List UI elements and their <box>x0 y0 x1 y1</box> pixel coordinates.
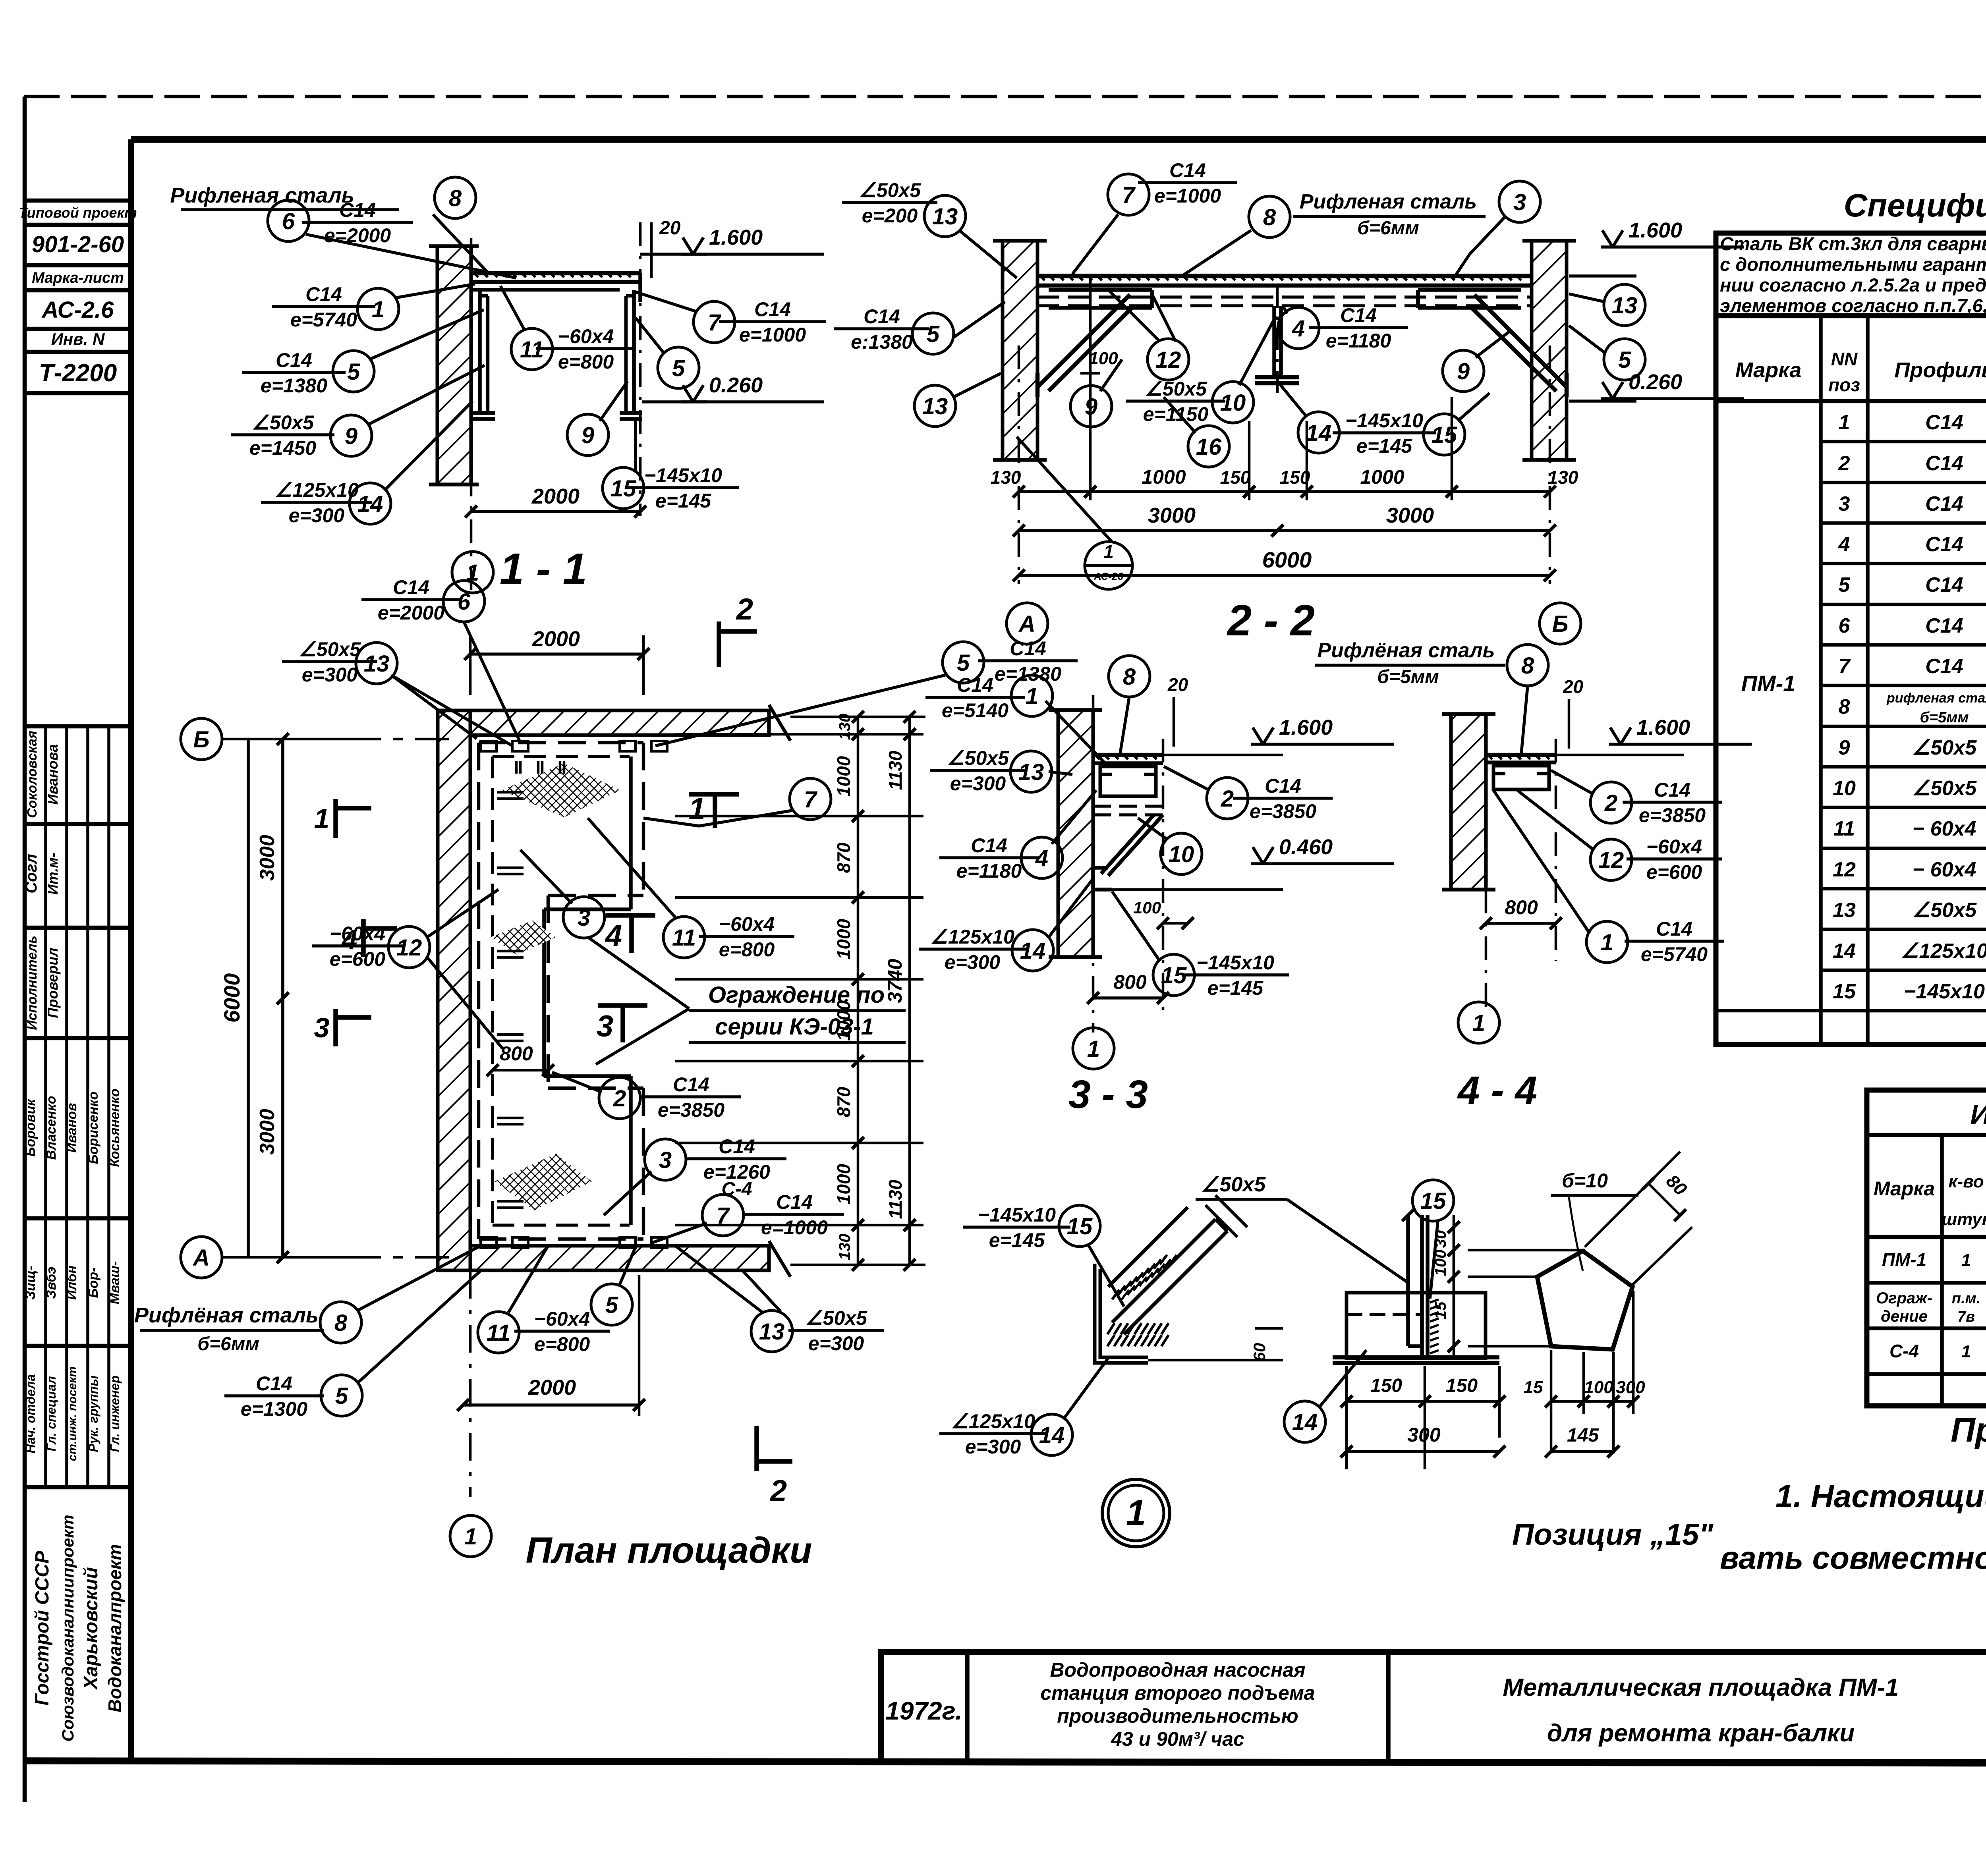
svg-text:1: 1 <box>1103 541 1114 562</box>
svg-text:145: 145 <box>1567 1425 1599 1446</box>
reference circle 1/AC-26 <box>1085 542 1132 589</box>
svg-text:7: 7 <box>1839 655 1851 678</box>
svg-text:300: 300 <box>1616 1378 1645 1397</box>
svg-text:8: 8 <box>1123 664 1136 690</box>
svg-text:−60x4: −60x4 <box>534 1308 590 1330</box>
dims under 2-2 <box>1018 345 1020 584</box>
svg-text:15: 15 <box>1067 1214 1093 1239</box>
svg-text:6: 6 <box>458 589 471 615</box>
svg-text:15: 15 <box>1161 963 1187 988</box>
svg-text:150: 150 <box>1446 1375 1478 1396</box>
svg-text:100: 100 <box>1432 1250 1449 1276</box>
svg-text:800: 800 <box>1505 896 1538 919</box>
svg-text:14: 14 <box>1039 1422 1065 1448</box>
svg-text:e=1450: e=1450 <box>249 437 316 459</box>
inner dashed line near wall <box>491 757 494 1225</box>
svg-text:150: 150 <box>1220 467 1251 488</box>
svg-text:e=3850: e=3850 <box>1639 804 1706 826</box>
svg-text:1000: 1000 <box>833 1164 854 1204</box>
svg-text:11: 11 <box>672 925 696 951</box>
svg-text:5: 5 <box>672 355 685 381</box>
svg-text:13: 13 <box>759 1319 785 1345</box>
svg-text:13: 13 <box>1018 759 1044 785</box>
svg-text:1972г.: 1972г. <box>885 1697 962 1725</box>
svg-text:вать совместно с листом АС-1: вать совместно с листом АС-1 <box>1720 1540 1986 1575</box>
dim 800 4-4 <box>1486 922 1556 925</box>
svg-text:С14: С14 <box>1010 637 1046 660</box>
svg-text:3: 3 <box>578 905 590 931</box>
svg-text:2: 2 <box>736 593 753 626</box>
vertical angle detail <box>1406 1215 1410 1346</box>
svg-text:870: 870 <box>833 842 854 873</box>
svg-text:С14: С14 <box>1340 304 1377 326</box>
svg-text:Исполнитель: Исполнитель <box>25 936 40 1030</box>
svg-text:С14: С14 <box>276 349 312 371</box>
svg-text:8: 8 <box>1263 205 1276 230</box>
svg-text:С14: С14 <box>1654 779 1690 801</box>
plan left wall hatched <box>438 710 470 1270</box>
section mark 2 top <box>717 621 721 667</box>
left wall 2-2 <box>1003 241 1037 460</box>
svg-text:1.600: 1.600 <box>709 226 763 249</box>
center lines 4-4 <box>1485 890 1488 1017</box>
svg-text:15: 15 <box>1833 980 1856 1003</box>
svg-text:e=800: e=800 <box>558 351 614 373</box>
svg-text:С14: С14 <box>305 283 342 305</box>
svg-text:С-4: С-4 <box>721 1179 752 1200</box>
svg-text:e=300: e=300 <box>965 1436 1021 1458</box>
label L125x10 e=300 circle 14 <box>261 501 372 504</box>
svg-text:Металлическая площадка ПМ-1: Металлическая площадка ПМ-1 <box>1503 1674 1899 1701</box>
svg-text:Ограждение по: Ограждение по <box>708 982 885 1008</box>
svg-text:Инв. N: Инв. N <box>51 330 105 348</box>
svg-text:3 - 3: 3 - 3 <box>1068 1072 1148 1117</box>
svg-text:∠50x5: ∠50x5 <box>947 747 1009 769</box>
svg-text:e=300: e=300 <box>808 1332 864 1355</box>
svg-text:Спецификация металла: Спецификация металла <box>1844 187 1986 224</box>
svg-text:100: 100 <box>1133 898 1161 917</box>
circle 7 C14 e=1000 plan bottom <box>702 1195 744 1236</box>
izgotovit table <box>1867 1090 1986 1406</box>
svg-text:производительностью: производительностью <box>1057 1705 1298 1727</box>
label C14 e=1380 circle 5 plan top right <box>943 642 984 683</box>
circle 5 bottom plan <box>591 1284 632 1325</box>
svg-text:14: 14 <box>1292 1409 1318 1435</box>
svg-text:14: 14 <box>357 491 383 517</box>
svg-text:1. Настоящий чертеж рассматри-: 1. Настоящий чертеж рассматри- <box>1775 1478 1986 1514</box>
lower dashed band 3-3 <box>1093 805 1163 808</box>
small channel clips along deck <box>481 741 496 751</box>
svg-text:1 - 1: 1 - 1 <box>500 544 587 593</box>
svg-text:Рук. группы: Рук. группы <box>86 1375 100 1452</box>
section mark 1 upper <box>689 792 739 797</box>
grid line A plan <box>222 1256 449 1259</box>
svg-text:1000: 1000 <box>833 919 854 959</box>
svg-text:п.м.: п.м. <box>1952 1290 1980 1307</box>
svg-text:С14: С14 <box>1265 775 1301 797</box>
section marks left column <box>333 799 338 838</box>
svg-text:1: 1 <box>464 1524 477 1550</box>
svg-text:−60x4: −60x4 <box>719 913 775 935</box>
svg-text:Т-2200: Т-2200 <box>39 359 117 387</box>
svg-text:e=1000: e=1000 <box>761 1216 828 1239</box>
svg-text:13: 13 <box>932 204 958 230</box>
svg-text:Борисенко: Борисенко <box>86 1092 101 1164</box>
svg-text:С14: С14 <box>1925 614 1963 637</box>
designation circle 1 below plan <box>450 1515 491 1557</box>
svg-text:1: 1 <box>1126 1493 1146 1533</box>
section mark 2 bottom <box>754 1426 759 1471</box>
svg-text:Изготовить: Изготовить <box>1970 1099 1986 1130</box>
drawing frame <box>131 136 1986 143</box>
svg-text:Ограж-: Ограж- <box>1876 1289 1932 1307</box>
svg-text:С14: С14 <box>957 674 993 696</box>
svg-text:901-2-60: 901-2-60 <box>32 232 124 257</box>
svg-text:С14: С14 <box>393 576 429 598</box>
svg-text:e=1380: e=1380 <box>261 374 327 397</box>
svg-text:13: 13 <box>922 394 948 419</box>
svg-text:нии согласно л.2.5.2а и предел: нии согласно л.2.5.2а и предельного соде… <box>1720 274 1986 295</box>
right diagonal brace 2-2 <box>1474 295 1567 387</box>
channel under deck right 2-2 <box>1418 288 1521 292</box>
svg-text:б=5мм: б=5мм <box>1920 709 1969 726</box>
svg-text:АС-26: АС-26 <box>1093 570 1123 582</box>
section designation circle 1 bottom <box>452 552 493 593</box>
svg-text:С-4: С-4 <box>1889 1341 1919 1361</box>
grid line B plan <box>222 738 449 741</box>
svg-text:2: 2 <box>769 1474 787 1508</box>
svg-text:9: 9 <box>1457 359 1470 384</box>
svg-text:7: 7 <box>804 787 818 813</box>
svg-text:9: 9 <box>582 423 594 448</box>
svg-text:рифленая сталь: рифленая сталь <box>1886 691 1986 706</box>
circle 3 C14 e=1260 plan <box>645 1139 686 1180</box>
svg-text:13: 13 <box>1612 293 1638 318</box>
dashed center line 1-1 <box>470 238 473 592</box>
svg-text:5: 5 <box>347 359 360 385</box>
channel 4-4 <box>1493 766 1549 789</box>
svg-text:Илбн: Илбн <box>64 1266 79 1300</box>
svg-text:Согл: Согл <box>23 854 40 894</box>
svg-text:1: 1 <box>1839 411 1850 434</box>
svg-text:Проверил: Проверил <box>44 948 61 1018</box>
svg-text:Б: Б <box>1552 611 1568 637</box>
svg-text:станция второго подъема: станция второго подъема <box>1040 1682 1315 1704</box>
dim 800 3-3 <box>1093 996 1163 1000</box>
labels 3-3 right <box>1109 656 1150 697</box>
svg-text:Иванова: Иванова <box>44 744 61 805</box>
svg-text:12: 12 <box>1598 847 1624 873</box>
right channel leg 1-1 <box>632 290 636 413</box>
svg-text:2: 2 <box>1838 452 1850 475</box>
svg-text:e=1300: e=1300 <box>241 1398 307 1420</box>
svg-text:9: 9 <box>1839 736 1850 759</box>
svg-text:ст.инж. посект: ст.инж. посект <box>66 1366 79 1461</box>
svg-text:e=145: e=145 <box>989 1229 1045 1251</box>
labels detail A <box>963 1226 1070 1229</box>
svg-text:5: 5 <box>335 1383 348 1409</box>
svg-text:Профиль: Профиль <box>1894 358 1986 382</box>
solid channel edges plan (top arm) <box>544 907 631 911</box>
dim 60 detail <box>1148 1359 1283 1362</box>
svg-text:16: 16 <box>1196 434 1222 460</box>
svg-text:С14: С14 <box>1925 492 1963 515</box>
svg-text:13: 13 <box>1833 899 1856 922</box>
svg-text:1130: 1130 <box>885 1179 906 1219</box>
svg-text:Марка: Марка <box>1735 358 1802 382</box>
svg-text:800: 800 <box>500 1042 533 1065</box>
deck 3-3 <box>1093 753 1163 757</box>
svg-text:8: 8 <box>334 1310 348 1336</box>
grating mesh patches <box>501 763 620 817</box>
svg-text:2: 2 <box>1604 790 1617 816</box>
svg-text:870: 870 <box>833 1087 854 1117</box>
svg-text:с дополнительными гарантиями з: с дополнительными гарантиями загиба в хо… <box>1720 254 1986 275</box>
svg-text:Ит.м-: Ит.м- <box>44 853 61 895</box>
svg-text:4: 4 <box>1035 845 1048 871</box>
svg-text:−60x4: −60x4 <box>330 923 385 945</box>
svg-text:11: 11 <box>487 1320 510 1346</box>
svg-text:150: 150 <box>1370 1375 1402 1396</box>
svg-text:дение: дение <box>1881 1308 1928 1325</box>
svg-text:3: 3 <box>314 1012 330 1043</box>
svg-text:Сталь ВК ст.3кл для сварных ко: Сталь ВК ст.3кл для сварных конструкций … <box>1720 233 1986 254</box>
svg-text:6000: 6000 <box>1262 547 1312 572</box>
svg-text:1130: 1130 <box>885 751 906 790</box>
svg-text:30: 30 <box>1432 1230 1449 1248</box>
svg-text:20: 20 <box>1563 676 1584 697</box>
svg-text:43 и 90м³/ час: 43 и 90м³/ час <box>1111 1728 1244 1750</box>
svg-text:4: 4 <box>605 919 622 953</box>
svg-text:С14: С14 <box>256 1372 292 1395</box>
svg-text:7: 7 <box>1122 182 1136 208</box>
circle 5 right leg <box>658 347 699 388</box>
svg-text:100: 100 <box>1584 1378 1613 1397</box>
svg-text:e=1000: e=1000 <box>1154 185 1221 207</box>
bottom dims pentagon 15 100 300 145 <box>1550 1350 1553 1453</box>
label L50x5 e=1450 circle 9 <box>231 433 334 436</box>
svg-text:А: А <box>192 1245 210 1271</box>
svg-text:∠50x5: ∠50x5 <box>859 179 921 201</box>
svg-text:1: 1 <box>1961 1251 1971 1270</box>
svg-text:4: 4 <box>1838 533 1850 556</box>
svg-text:∠125x10: ∠125x10 <box>274 479 359 501</box>
left diagonal brace 2-2 <box>1037 295 1130 387</box>
svg-text:∠50x5: ∠50x5 <box>1201 1173 1266 1196</box>
dim 2000 below 1-1 <box>471 510 640 513</box>
svg-text:10: 10 <box>1169 841 1194 867</box>
svg-text:для ремонта кран-балки: для ремонта кран-балки <box>1547 1720 1855 1747</box>
svg-text:e=300: e=300 <box>945 951 1001 973</box>
svg-text:1: 1 <box>1601 930 1613 955</box>
svg-text:Б: Б <box>193 727 209 753</box>
svg-text:6: 6 <box>282 208 295 234</box>
plan center line vertical <box>469 1271 472 1497</box>
channel under deck left 2-2 <box>1049 288 1152 292</box>
svg-text:130: 130 <box>836 714 854 740</box>
svg-text:С14: С14 <box>673 1073 709 1096</box>
title block <box>881 1652 1986 1762</box>
section mark 4 mid <box>606 913 655 918</box>
svg-text:Звбэ: Звбэ <box>44 1267 59 1299</box>
svg-text:−60x4: −60x4 <box>558 325 614 347</box>
svg-text:−145x10: −145x10 <box>1904 980 1985 1003</box>
svg-text:8: 8 <box>1839 695 1850 718</box>
label C14 e=1000 circle 7 right <box>694 301 735 343</box>
svg-text:Позиция „15": Позиция „15" <box>1512 1518 1714 1552</box>
svg-text:e=300: e=300 <box>302 664 358 686</box>
svg-text:С14: С14 <box>339 199 376 221</box>
svg-text:С14: С14 <box>754 298 791 320</box>
label 13 L50x5 e=300 bottom plan <box>751 1310 792 1352</box>
detail: base plate with angle pos14/15 <box>1347 1293 1486 1358</box>
wall 3-3 hatched <box>1058 710 1093 957</box>
label C14 e=2000 circle 6 <box>268 200 309 241</box>
grid bubble B 2-2 <box>1540 603 1581 644</box>
svg-text:e=300: e=300 <box>950 772 1006 795</box>
channel section 3-3 (C profile) <box>1100 766 1156 796</box>
svg-text:1: 1 <box>1472 1010 1485 1036</box>
svg-text:∠50x5: ∠50x5 <box>805 1307 867 1329</box>
svg-text:серии КЭ-03-1: серии КЭ-03-1 <box>715 1014 874 1040</box>
svg-text:1000: 1000 <box>833 756 854 797</box>
svg-text:13: 13 <box>364 651 390 677</box>
middle post 2-2 <box>1272 306 1276 377</box>
svg-text:С14: С14 <box>1925 411 1963 434</box>
svg-text:Водоканалпроект: Водоканалпроект <box>104 1544 125 1712</box>
svg-text:1000: 1000 <box>1360 466 1404 488</box>
svg-text:1: 1 <box>1026 683 1038 709</box>
svg-text:к-во: к-во <box>1948 1172 1984 1191</box>
svg-text:Марка-лист: Марка-лист <box>32 270 124 286</box>
svg-text:∠50x5: ∠50x5 <box>1145 378 1207 400</box>
svg-text:0.260: 0.260 <box>709 373 763 397</box>
svg-text:6000: 6000 <box>219 973 244 1023</box>
svg-text:5: 5 <box>605 1292 618 1318</box>
svg-text:0.460: 0.460 <box>1279 835 1333 859</box>
svg-text:Косьяненко: Косьяненко <box>107 1089 122 1167</box>
svg-text:штук: штук <box>1942 1210 1986 1229</box>
svg-text:−145x10: −145x10 <box>1196 952 1274 974</box>
svg-text:1: 1 <box>1961 1342 1971 1361</box>
labels around 2-2 <box>842 201 937 204</box>
left dims pentagon 30 100 15 <box>1468 1249 1585 1252</box>
svg-text:5: 5 <box>957 650 970 676</box>
grid bubble A 2-2 <box>1007 603 1048 644</box>
label -60x4 e=800 circle 11 <box>511 328 553 370</box>
svg-text:3000: 3000 <box>256 835 279 881</box>
svg-text:− 60x4: − 60x4 <box>1913 858 1976 881</box>
dims detail B <box>1345 1366 1348 1469</box>
svg-text:Госстрой СССР: Госстрой СССР <box>32 1550 53 1706</box>
checkered floor dots <box>475 274 478 277</box>
svg-text:∠125x10: ∠125x10 <box>951 1410 1035 1432</box>
svg-text:Иванов: Иванов <box>64 1103 79 1152</box>
svg-text:12: 12 <box>396 935 422 961</box>
specification table grid <box>1716 233 1986 1044</box>
label -60x4 e=800 circle 11 plan <box>663 917 705 958</box>
svg-text:С14: С14 <box>971 834 1007 857</box>
svg-text:Власенко: Власенко <box>44 1096 59 1160</box>
vertical dim 6000 plan <box>247 739 250 1257</box>
svg-text:14: 14 <box>1306 420 1332 446</box>
svg-text:e=1180: e=1180 <box>1326 330 1391 352</box>
svg-text:Гл. инженер: Гл. инженер <box>108 1375 122 1452</box>
svg-text:2000: 2000 <box>532 627 580 651</box>
svg-text:2 - 2: 2 - 2 <box>1227 596 1315 645</box>
svg-text:1.600: 1.600 <box>1629 218 1682 242</box>
svg-text:1: 1 <box>1087 1036 1100 1062</box>
svg-text:100: 100 <box>1089 349 1118 368</box>
svg-text:С14: С14 <box>719 1135 755 1158</box>
table rows <box>1821 440 1986 444</box>
svg-text:3000: 3000 <box>1148 504 1196 527</box>
svg-text:3: 3 <box>1513 189 1526 215</box>
svg-text:1: 1 <box>689 792 705 826</box>
svg-text:С14: С14 <box>1925 452 1963 475</box>
svg-text:e=1380: e=1380 <box>995 663 1061 685</box>
svg-text:e=145: e=145 <box>655 490 712 512</box>
svg-text:Харьковский: Харьковский <box>81 1567 102 1691</box>
svg-text:1.600: 1.600 <box>1636 716 1690 739</box>
diagonal brace 3-3 <box>1108 815 1163 876</box>
svg-text:130: 130 <box>991 467 1021 488</box>
circle 3 plan upper <box>563 897 605 938</box>
detail designation circle 1 double <box>1102 1479 1170 1547</box>
svg-text:e=145: e=145 <box>1207 977 1264 999</box>
section mark 3 mid <box>598 1003 647 1008</box>
detail: pentagon gusset plate pos15 <box>1537 1251 1632 1349</box>
svg-text:e=300: e=300 <box>289 504 345 527</box>
svg-text:e=145: e=145 <box>1356 435 1413 457</box>
svg-text:3740: 3740 <box>884 959 906 1003</box>
svg-text:∠125x10: ∠125x10 <box>930 926 1014 948</box>
label C14 e=1380 circle 5 <box>242 371 346 374</box>
svg-text:NN: NN <box>1831 349 1858 369</box>
right wall 2-2 <box>1532 241 1567 460</box>
svg-text:8: 8 <box>449 185 462 211</box>
svg-text:15: 15 <box>1420 1188 1446 1214</box>
svg-text:14: 14 <box>1833 940 1856 963</box>
designation circle 1 bottom 3-3 <box>1073 1028 1114 1069</box>
svg-text:5: 5 <box>1839 573 1851 596</box>
svg-text:e=1150: e=1150 <box>1143 403 1209 425</box>
svg-text:ПМ-1: ПМ-1 <box>1741 671 1796 696</box>
svg-text:Рифлёная сталь: Рифлёная сталь <box>1317 639 1495 662</box>
svg-text:−145x10: −145x10 <box>1345 409 1423 432</box>
svg-text:1.600: 1.600 <box>1279 716 1333 739</box>
svg-text:e=1000: e=1000 <box>739 324 806 346</box>
svg-text:∠50x5: ∠50x5 <box>1912 899 1977 922</box>
svg-text:7в: 7в <box>1957 1309 1975 1325</box>
wall (hatched) section 1-1 <box>437 246 471 484</box>
svg-text:2000: 2000 <box>531 484 580 508</box>
circle 7 plan upper <box>790 778 831 820</box>
svg-text:0.260: 0.260 <box>1629 370 1682 394</box>
svg-text:3000: 3000 <box>1386 504 1434 527</box>
svg-text:АС-2.6: АС-2.6 <box>41 297 114 323</box>
svg-text:С14: С14 <box>1925 533 1963 556</box>
svg-text:Марка: Марка <box>1874 1177 1935 1200</box>
svg-text:б=10: б=10 <box>1562 1170 1608 1192</box>
svg-text:e=200: e=200 <box>862 205 918 227</box>
strap marks -60x4 along wall <box>497 791 524 794</box>
label 11 -60x4 e=800 bottom plan <box>478 1312 519 1353</box>
svg-text:e=3850: e=3850 <box>1250 800 1316 822</box>
svg-text:e=5740: e=5740 <box>1641 943 1708 965</box>
left channel leg 1-1 <box>478 290 482 413</box>
angle bracket detail left <box>1095 1207 1227 1363</box>
